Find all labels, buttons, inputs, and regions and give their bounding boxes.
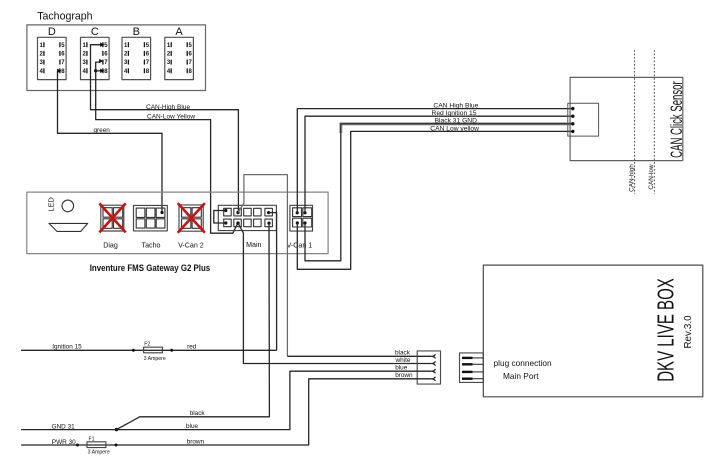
svg-text:black: black — [190, 410, 206, 417]
pin 2 — [462, 363, 473, 365]
node sensor pin 4 (CAN low yellow) — [571, 130, 574, 133]
svg-text:F1: F1 — [89, 436, 95, 442]
tachograph connector C — [81, 26, 110, 80]
arrowhead into C8 — [100, 69, 105, 73]
node GND junction — [115, 428, 118, 431]
svg-text:C: C — [91, 26, 99, 38]
node sensor pin 1 (CAN high blue) — [571, 107, 574, 110]
connector V-Can 1 — [290, 205, 313, 231]
dashed net CAN-high — [634, 50, 636, 194]
svg-text:CAN High Blue: CAN High Blue — [433, 102, 478, 109]
node Main pin 5 bottom — [267, 222, 270, 225]
svg-text:CAN-high: CAN-high — [629, 164, 636, 192]
fuse F2 — [144, 347, 163, 353]
svg-text:A: A — [175, 26, 183, 38]
pin 1 — [462, 357, 473, 359]
node dot right of fuse F1 — [115, 444, 118, 447]
plug housing — [417, 351, 440, 384]
wire GND 31 — [21, 429, 116, 431]
junction dot at C8 branch — [94, 69, 97, 72]
connector Main — [218, 205, 276, 230]
svg-text:Red Ignition 15: Red Ignition 15 — [432, 110, 477, 117]
svg-text:D: D — [48, 26, 56, 38]
wire Red Ignition 15: V-Can1 pin top-right to sensor — [305, 116, 572, 213]
wire Ignition 15 / red — [21, 349, 277, 351]
node V-Can 1 pin bottom-left (CAN low) — [296, 221, 299, 224]
DKV Main Port male connector — [460, 353, 484, 383]
wire CAN-High Blue: tachograph C pin 5 to gateway Main pin 2 (top) — [91, 43, 239, 213]
svg-text:Inventure FMS Gateway G2 Plus: Inventure FMS Gateway G2 Plus — [90, 263, 211, 273]
svg-text:blue: blue — [186, 423, 199, 430]
node Main pin 1 top — [224, 209, 227, 212]
node Main pin 2 top — [236, 211, 239, 214]
node V-Can 1 pin bottom-right (GND) — [303, 221, 306, 224]
node dot right of fuse F2 — [170, 349, 173, 352]
wire CAN High Blue (right): V-Can1 pin top-left to sensor — [297, 109, 571, 213]
wire white: Main pin2 bottom to DKV plug — [238, 223, 432, 363]
arrowhead into D8 — [57, 69, 62, 73]
svg-text:3 Ampere: 3 Ampere — [144, 356, 166, 362]
svg-text:Rev.3.0: Rev.3.0 — [683, 315, 694, 349]
svg-text:PWR 30: PWR 30 — [52, 439, 76, 446]
node sensor pin 2 (red ignition 15) — [571, 115, 574, 118]
connector Tacho — [134, 205, 168, 231]
svg-text:CAN-Low Yellow: CAN-Low Yellow — [147, 114, 195, 121]
pin 3 — [462, 371, 473, 373]
dashed net CAN-low — [653, 50, 655, 194]
LED circle — [62, 200, 74, 212]
svg-text:Ignition 15: Ignition 15 — [52, 344, 82, 351]
svg-text:red: red — [187, 344, 197, 351]
Inventure FMS Gateway enclosure — [27, 192, 328, 254]
wire PWR 30 / brown — [21, 379, 432, 445]
CAN Click Sensor box — [570, 77, 683, 160]
svg-text:CAN Click Sensor: CAN Click Sensor — [667, 81, 685, 158]
svg-text:LED: LED — [47, 197, 56, 211]
svg-text:F2: F2 — [144, 342, 150, 348]
node dot left of fuse F2 — [132, 349, 135, 352]
junction dot at Tacho connector cell — [160, 211, 163, 214]
node Main pin 2 bottom — [236, 221, 239, 224]
sensor connector box — [568, 103, 599, 136]
svg-text:black: black — [395, 350, 411, 357]
fuse F1 — [87, 442, 106, 448]
wire (gray loop) Main pin2 top over to DKV black — [238, 175, 287, 357]
socket contact 1 (black wire) — [432, 354, 436, 358]
node V-Can 1 pin top-left (CAN high) — [296, 211, 299, 214]
wire black (bottom): Main pin5 bottom down to GND junction — [117, 223, 270, 430]
wire Black 31 GND (gray highlight): V-Can1 pin bottom-right to sensor — [341, 124, 572, 133]
svg-text:CAN-High Blue: CAN-High Blue — [146, 104, 190, 111]
node Main pin 5 top — [267, 211, 270, 214]
tachograph connector A — [165, 26, 194, 80]
red X over Diag — [99, 203, 125, 232]
tachograph connector D — [38, 26, 67, 80]
svg-text:GND 31: GND 31 — [52, 424, 76, 431]
node dot left of fuse F1 — [76, 444, 79, 447]
wire CAN Low yellow: V-Can1 pin bottom-left to sensor — [297, 131, 571, 269]
arrowhead into C5 — [100, 43, 105, 47]
connector V-Can 2 (crossed out) — [178, 203, 205, 233]
svg-text:Black 31 GND: Black 31 GND — [435, 118, 478, 125]
tachograph connector B — [122, 26, 151, 80]
svg-text:Diag: Diag — [103, 241, 118, 249]
socket contact 3 (blue wire) — [432, 369, 436, 373]
svg-text:V-Can 1: V-Can 1 — [287, 241, 313, 249]
svg-text:Tachograph: Tachograph — [37, 11, 92, 23]
wire red: Main pin5 top down to ignition line — [269, 213, 277, 351]
branch into C8 — [96, 70, 101, 72]
svg-text:Main Port: Main Port — [503, 371, 539, 381]
svg-text:Tacho: Tacho — [142, 241, 161, 249]
arrowhead into C7 — [99, 59, 103, 63]
red X over V-Can 2 — [178, 203, 205, 233]
svg-text:plug connection: plug connection — [494, 358, 553, 368]
wire CAN-Low Yellow: tachograph C pins 7+8 to gateway Main pin 2 (bottom) — [94, 59, 238, 233]
node V-Can 1 pin top-right (ignition) — [303, 211, 306, 214]
wire green: tachograph D pin 8 to gateway Tacho connector — [57, 69, 163, 215]
svg-text:brown: brown — [187, 439, 205, 446]
wire black to DKV plug — [287, 355, 431, 357]
connector Diag (crossed out) — [99, 203, 125, 232]
socket contact 4 (brown wire) — [432, 377, 436, 381]
node Main pin 1 bottom — [224, 221, 227, 224]
buzzer trapezoid — [49, 223, 88, 231]
pin 4 — [462, 378, 473, 380]
wire bracket joining Main pin1 top and bottom — [214, 211, 226, 224]
svg-text:B: B — [133, 26, 140, 38]
svg-text:DKV LIVE BOX: DKV LIVE BOX — [653, 278, 679, 382]
svg-text:white: white — [395, 357, 411, 364]
node sensor pin 3 (black 31 GND) — [571, 122, 574, 125]
svg-text:green: green — [94, 127, 111, 134]
svg-text:V-Can 2: V-Can 2 — [178, 241, 204, 249]
svg-text:Main: Main — [246, 241, 261, 249]
socket contact 2 (white wire) — [432, 361, 436, 365]
tachograph enclosure box — [27, 25, 206, 91]
svg-text:CAN Low yellow: CAN Low yellow — [430, 125, 479, 132]
svg-text:CAN-low: CAN-low — [648, 164, 655, 190]
DKV LIVE BOX enclosure — [483, 265, 703, 397]
svg-text:3 Ampere: 3 Ampere — [88, 450, 110, 456]
wire blue: GND junction to DKV plug — [117, 371, 432, 429]
